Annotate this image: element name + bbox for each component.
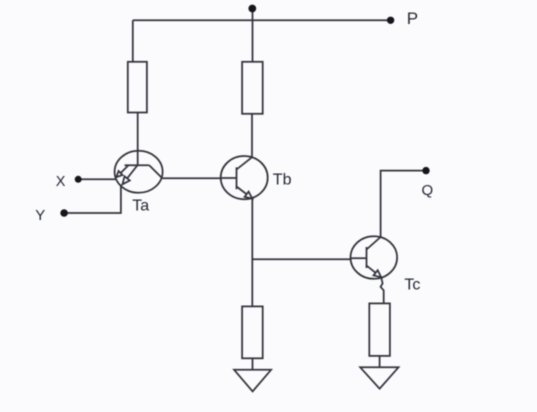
svg-text:X: X — [56, 174, 66, 190]
svg-text:Q: Q — [422, 182, 434, 199]
svg-text:Ta: Ta — [132, 198, 149, 215]
svg-text:Y: Y — [35, 207, 45, 224]
svg-text:Tb: Tb — [273, 171, 292, 188]
svg-text:P: P — [407, 9, 418, 28]
svg-text:Tc: Tc — [404, 276, 420, 293]
